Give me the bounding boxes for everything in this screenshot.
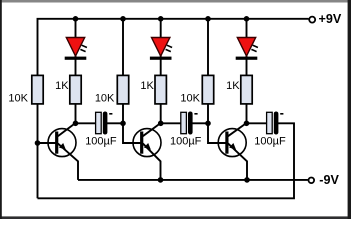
svg-text:100µF: 100µF [254,136,286,148]
resistor R2 1K [70,75,81,104]
LED D1 [65,38,87,60]
wire C3 leads [247,122,268,124]
wire bottom feedback from C3 to Q1 base column [38,123,295,198]
LED D2 [150,38,172,60]
node Q3 emitter junction [244,177,250,183]
svg-text:-9V: -9V [319,173,339,187]
wire 10K3 column to Q3 base [208,19,227,143]
wire C1 leads [76,122,97,124]
svg-text:100µF: 100µF [170,136,202,148]
node Q2 emitter junction [158,177,164,183]
terminal -9V [309,178,315,184]
terminal +9V [309,17,315,23]
node top rail junctions [73,16,79,22]
resistor R5 10K [202,75,213,104]
frame border [0,0,351,3]
svg-text:1K: 1K [226,80,240,92]
resistor R1 10K [32,75,43,104]
svg-text:+9V: +9V [319,12,342,26]
transistor Q1 [48,123,78,180]
resistor R4 1K [155,75,166,104]
transistor Q2 [133,123,161,180]
wire LED2 column [160,19,162,124]
node Q1 base junction [35,140,41,146]
wire top +9V rail [38,19,309,199]
wire 10K2 column to Q2 base [123,19,142,143]
resistor R6 1K [241,75,252,104]
svg-text:100µF: 100µF [85,136,117,148]
wire LED1 column [75,19,77,124]
svg-text:10K: 10K [8,93,28,105]
capacitor C2 100uF [181,112,198,135]
svg-text:10K: 10K [95,93,115,105]
transistor Q3 [218,123,247,180]
capacitor C3 100uF [267,112,284,135]
wire LED3 column [246,19,248,124]
resistor R3 10K [117,75,128,104]
wire Q1 base [38,142,57,144]
svg-text:10K: 10K [180,93,200,105]
wire C2 leads [161,122,181,124]
svg-text:1K: 1K [140,80,154,92]
wire emitter rail to -9V [78,179,308,181]
svg-text:1K: 1K [55,80,69,92]
capacitor C1 100uF [96,112,113,135]
LED D3 [236,38,258,60]
node collector/cap junctions [73,121,79,127]
